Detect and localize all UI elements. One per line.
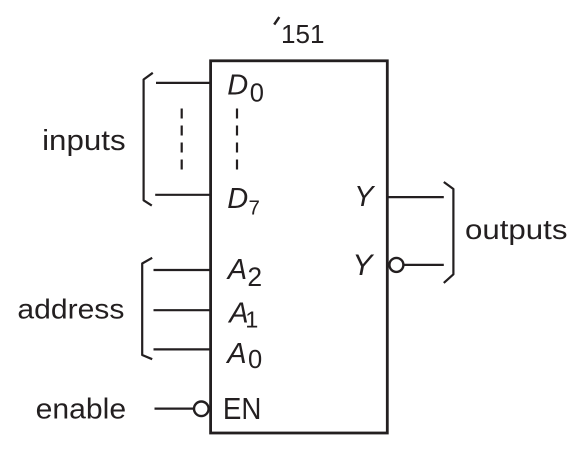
outputs bracket (444, 182, 454, 283)
wire A0 input (154, 348, 211, 350)
svg-text:2: 2 (247, 262, 262, 292)
inputs bracket (144, 73, 153, 206)
svg-text:Y: Y (354, 181, 376, 213)
svg-text:A: A (226, 254, 247, 286)
svg-text:EN: EN (223, 392, 262, 426)
label '151 (device type) (274, 17, 324, 49)
dashed ellipsis line (D1-D6, outside box) (181, 109, 183, 170)
dashed ellipsis line (D1-D6, inside box) (236, 109, 238, 170)
IC body U1 ('151 multiplexer outline) (211, 61, 388, 433)
svg-text:1: 1 (245, 307, 258, 333)
wire Y-bar output (404, 264, 444, 266)
pin label A2 (226, 254, 262, 292)
wire EN input (155, 408, 194, 410)
wire D7 input (155, 194, 210, 196)
svg-text:D: D (227, 70, 248, 102)
pin label A1 (227, 298, 258, 333)
pin label D7 (227, 183, 260, 220)
svg-text:0: 0 (250, 79, 264, 107)
wire D0 input (156, 82, 211, 84)
svg-text:151: 151 (281, 19, 325, 49)
svg-text:A: A (225, 338, 246, 370)
pin label D0 (227, 70, 264, 108)
svg-text:Y: Y (352, 249, 374, 282)
svg-text:outputs: outputs (465, 214, 568, 245)
bubble EN (active-low enable) (194, 402, 209, 417)
svg-text:D: D (227, 183, 248, 215)
bubble Y-bar (inverted output) (389, 258, 403, 272)
wire Y output (388, 196, 444, 198)
wire A2 input (154, 269, 211, 271)
svg-text:address: address (17, 293, 124, 324)
svg-text:inputs: inputs (42, 125, 126, 157)
svg-text:enable: enable (36, 393, 127, 425)
wire A1 input (154, 309, 211, 311)
svg-text:0: 0 (248, 346, 262, 374)
pin label A0 (225, 338, 262, 374)
address bracket (142, 258, 152, 359)
svg-text:7: 7 (249, 197, 260, 220)
